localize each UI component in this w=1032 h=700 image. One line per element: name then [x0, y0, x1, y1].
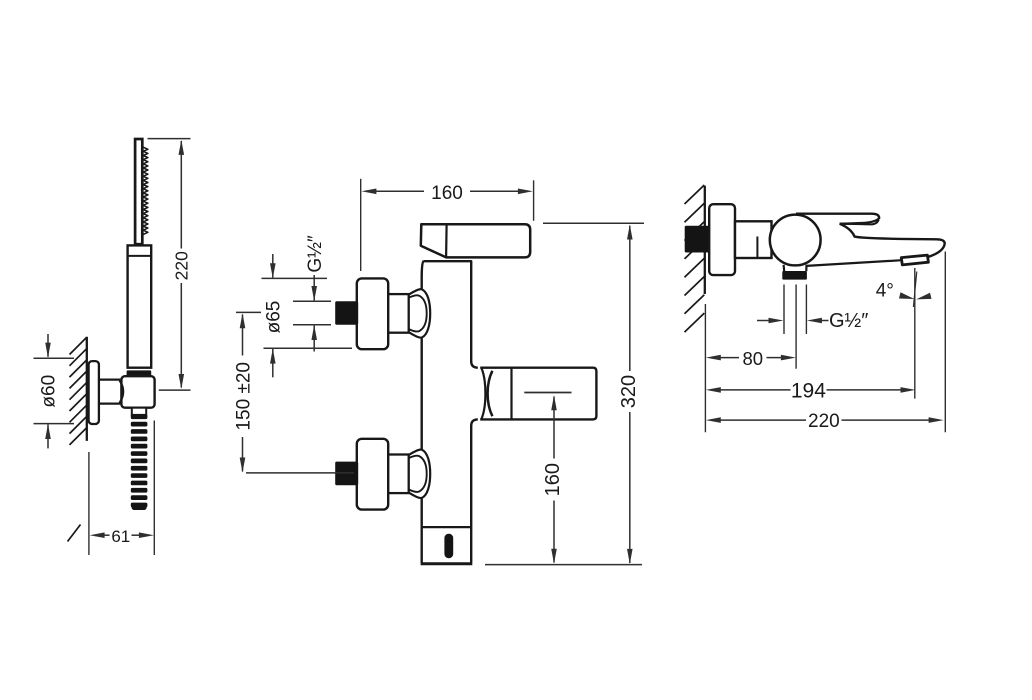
- dim 320 ticks: [485, 223, 644, 564]
- dim 320 label: [618, 375, 640, 408]
- dim 80 label: [743, 348, 764, 369]
- dim 80 line: [706, 355, 796, 361]
- dim G½ label: [305, 235, 326, 273]
- svg-text:80: 80: [743, 348, 764, 369]
- diverter block bell: [482, 368, 493, 419]
- 4deg arrows: [899, 292, 932, 299]
- block reference line: [524, 392, 571, 394]
- dim ø60 label: [38, 375, 59, 408]
- dim G½ ticks: [293, 301, 331, 325]
- wall line: [86, 337, 88, 441]
- lower inlet bell: [409, 450, 430, 499]
- upper inlet escutcheon: [357, 278, 388, 349]
- svg-text:ø60: ø60: [38, 375, 59, 408]
- shower hose: [131, 414, 148, 510]
- spout tip ext line: [944, 252, 946, 433]
- lower inlet escutcheon: [357, 439, 388, 510]
- lower inlet pipe: [388, 455, 409, 494]
- valve body circle: [770, 215, 821, 266]
- side G½ dim: [757, 318, 829, 324]
- svg-text:194: 194: [791, 379, 826, 402]
- dim 220s line: [706, 417, 944, 423]
- holder arm: [99, 380, 123, 404]
- svg-text:G½″: G½″: [305, 235, 326, 273]
- dim 160v line: [551, 395, 557, 564]
- dim 160 top ext lines: [361, 179, 534, 271]
- dim ø65 arrows: [270, 254, 276, 377]
- wall holder block: [121, 376, 154, 408]
- svg-text:4°: 4°: [876, 281, 894, 302]
- 4deg line: [913, 268, 916, 399]
- side connecting pipe: [735, 221, 772, 258]
- hose connector: [132, 408, 146, 415]
- mixer body bottom edge: [421, 562, 473, 565]
- dim ø60 ticks: [34, 358, 75, 423]
- spray face texture: [143, 147, 148, 234]
- dim 220 ticks: [148, 139, 191, 391]
- svg-text:220: 220: [172, 251, 192, 280]
- shower outlet: [782, 265, 807, 280]
- dim 61 line: [90, 532, 154, 538]
- side inlet nipple: [685, 226, 711, 253]
- svg-text:61: 61: [111, 527, 130, 546]
- body separator line: [423, 526, 471, 528]
- dim 160v label: [542, 463, 564, 496]
- svg-text:160: 160: [542, 463, 564, 496]
- aerator: [901, 255, 928, 265]
- dim 194 label: [791, 379, 826, 402]
- svg-text:150 ±20: 150 ±20: [233, 362, 254, 431]
- svg-text:220: 220: [808, 411, 840, 432]
- dim 160 top label: [431, 183, 463, 204]
- lower inlet nipple: [335, 462, 358, 486]
- dim 61 label: [111, 527, 130, 546]
- dim 220 label: [172, 251, 192, 280]
- dim 160 top line: [361, 189, 533, 195]
- svg-text:160: 160: [431, 183, 463, 204]
- side G½ ext lines: [784, 285, 806, 369]
- side wall hatching: [685, 185, 705, 332]
- dim ø65 label: [264, 301, 285, 334]
- outlet slot: [444, 534, 453, 558]
- svg-text:ø65: ø65: [264, 301, 285, 334]
- upper inlet nipple: [335, 301, 358, 325]
- handle-holder junction band: [127, 370, 152, 375]
- dim 150±20 ticks: [236, 312, 354, 473]
- dim 220s label: [808, 411, 840, 432]
- svg-text:G½″: G½″: [829, 310, 868, 332]
- svg-text:320: 320: [618, 375, 640, 408]
- dim 194 line: [706, 387, 916, 393]
- dim ø65 ticks: [262, 278, 353, 348]
- 4deg label: [876, 281, 894, 302]
- dim 150±20 line: [240, 313, 246, 472]
- hand shower handle: [128, 245, 152, 367]
- side wall ext line: [704, 304, 706, 432]
- dim 150±20 label: [233, 362, 254, 431]
- dim 220 line: [179, 140, 185, 389]
- wall hatching: [68, 338, 87, 542]
- upper inlet pipe: [388, 294, 409, 333]
- dim 61 ext lines: [89, 421, 154, 556]
- dim G½ arrows: [311, 275, 317, 352]
- side G½ label: [829, 310, 868, 332]
- dim ø60 arrows: [45, 334, 51, 448]
- diverter block: [480, 368, 596, 420]
- hand shower spray plate: [135, 139, 142, 244]
- side wall line: [704, 186, 706, 294]
- dim 320 line: [627, 225, 633, 564]
- side escutcheon: [709, 204, 735, 275]
- wall escutcheon: [89, 361, 99, 424]
- upper inlet bell: [409, 289, 430, 338]
- spout: [806, 224, 944, 266]
- mixer lever: [421, 224, 530, 257]
- side lever: [796, 214, 879, 225]
- mixer body: [422, 261, 478, 562]
